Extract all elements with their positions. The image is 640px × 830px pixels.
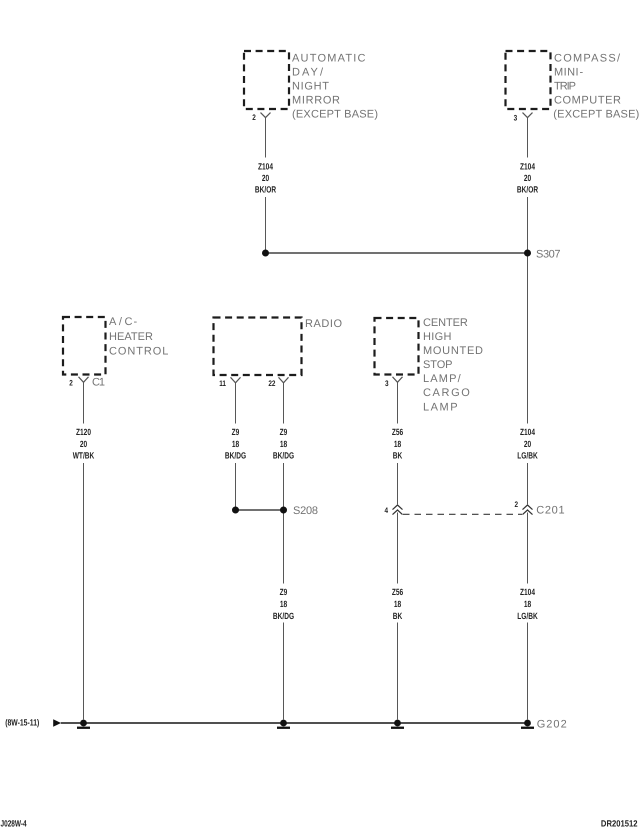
svg-text:LAMP/: LAMP/ <box>423 373 462 385</box>
svg-text:(EXCEPT BASE): (EXCEPT BASE) <box>553 109 639 121</box>
svg-text:HIGH: HIGH <box>423 331 452 343</box>
svg-text:BK/DG: BK/DG <box>225 451 246 461</box>
svg-text:A/C: A/C <box>109 316 133 328</box>
svg-text:-: - <box>134 316 138 328</box>
svg-text:Z104: Z104 <box>520 162 535 172</box>
svg-text:18: 18 <box>524 599 531 609</box>
svg-text:G202: G202 <box>537 719 567 731</box>
svg-text:3: 3 <box>514 114 518 123</box>
svg-text:-: - <box>580 66 584 78</box>
svg-text:(EXCEPT BASE): (EXCEPT BASE) <box>292 109 378 121</box>
svg-text:Z104: Z104 <box>520 587 535 597</box>
svg-text:Z56: Z56 <box>392 427 403 437</box>
svg-text:20: 20 <box>262 173 269 183</box>
svg-text:20: 20 <box>80 439 87 449</box>
svg-text:11: 11 <box>219 379 226 388</box>
svg-text:Z104: Z104 <box>520 427 535 437</box>
svg-text:Z104: Z104 <box>258 162 273 172</box>
svg-text:4: 4 <box>384 506 388 515</box>
svg-text:NIGHT: NIGHT <box>292 81 329 93</box>
svg-text:18: 18 <box>232 439 239 449</box>
svg-text:TRIP: TRIP <box>554 81 576 93</box>
svg-text:C1: C1 <box>92 377 105 389</box>
svg-text:CARGO: CARGO <box>423 387 470 399</box>
svg-text:18: 18 <box>280 599 287 609</box>
svg-text:BK/OR: BK/OR <box>255 184 277 194</box>
svg-text:BK/OR: BK/OR <box>517 184 539 194</box>
svg-text:S307: S307 <box>536 248 561 260</box>
svg-text:DAY/: DAY/ <box>292 66 324 78</box>
svg-text:MIRROR: MIRROR <box>292 95 340 107</box>
svg-text:J028W-4: J028W-4 <box>1 819 27 829</box>
svg-text:2: 2 <box>69 379 73 388</box>
svg-text:HEATER: HEATER <box>109 331 153 343</box>
svg-text:RADIO: RADIO <box>305 318 342 330</box>
svg-text:Z56: Z56 <box>392 587 403 597</box>
svg-text:S208: S208 <box>293 505 318 517</box>
svg-text:CENTER: CENTER <box>423 317 468 329</box>
svg-text:Z9: Z9 <box>280 587 288 597</box>
svg-text:Z9: Z9 <box>280 427 288 437</box>
svg-text:3: 3 <box>385 379 389 388</box>
svg-text:18: 18 <box>394 599 401 609</box>
svg-text:C201: C201 <box>536 505 564 517</box>
svg-text:LG/BK: LG/BK <box>517 451 538 461</box>
svg-text:BK: BK <box>393 451 403 461</box>
svg-text:20: 20 <box>524 173 531 183</box>
svg-text:COMPASS/: COMPASS/ <box>554 52 621 64</box>
svg-text:2: 2 <box>514 500 518 509</box>
svg-text:(8W-15-11): (8W-15-11) <box>5 718 39 728</box>
svg-text:18: 18 <box>280 439 287 449</box>
svg-text:2: 2 <box>252 113 256 122</box>
svg-text:STOP: STOP <box>423 359 453 371</box>
svg-text:AUTOMATIC: AUTOMATIC <box>292 52 366 64</box>
svg-text:20: 20 <box>524 439 531 449</box>
svg-text:COMPUTER: COMPUTER <box>554 95 621 107</box>
svg-text:Z9: Z9 <box>232 427 240 437</box>
svg-text:MOUNTED: MOUNTED <box>423 345 483 357</box>
svg-text:DR201512: DR201512 <box>601 819 638 829</box>
svg-text:BK/DG: BK/DG <box>273 611 294 621</box>
svg-text:18: 18 <box>394 439 401 449</box>
svg-text:LAMP: LAMP <box>423 401 458 413</box>
svg-text:Z120: Z120 <box>76 427 91 437</box>
svg-text:BK/DG: BK/DG <box>273 451 294 461</box>
svg-text:LG/BK: LG/BK <box>517 611 538 621</box>
svg-text:MINI: MINI <box>554 66 579 78</box>
svg-text:CONTROL: CONTROL <box>109 346 168 358</box>
svg-text:BK: BK <box>393 611 403 621</box>
svg-text:WT/BK: WT/BK <box>73 451 95 461</box>
svg-text:22: 22 <box>268 379 276 388</box>
